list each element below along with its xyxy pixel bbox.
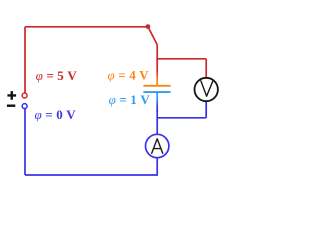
wire violet vertical to ammeter bbox=[156, 110, 158, 135]
ammeter A1 circle bbox=[146, 134, 169, 157]
battery - sign bbox=[7, 104, 15, 106]
svg-text:φ = 1 V: φ = 1 V bbox=[109, 92, 151, 107]
battery + sign bbox=[7, 91, 16, 100]
wire red top horizontal bbox=[25, 26, 148, 28]
capacitor C top plate bbox=[143, 85, 170, 87]
wire violet below ammeter bbox=[156, 158, 158, 175]
node battery - terminal open circle bbox=[22, 104, 27, 109]
wire red branch horizontal to voltmeter bbox=[157, 58, 206, 60]
switch blade diagonal bbox=[148, 27, 157, 45]
capacitor C bottom plate bbox=[143, 91, 170, 93]
wire red to orange gradient vertical to capacitor top plate bbox=[156, 59, 158, 86]
wire red left vertical from + terminal to top-left corner bbox=[24, 27, 26, 93]
wire red voltmeter top stub bbox=[205, 59, 207, 78]
wire azure to violet gradient below capacitor bbox=[156, 92, 158, 112]
node battery + terminal open circle bbox=[22, 93, 27, 98]
wire violet left vertical to - terminal bbox=[24, 109, 26, 175]
svg-text:φ = 5 V: φ = 5 V bbox=[36, 68, 78, 83]
wire violet bottom horizontal bbox=[25, 174, 158, 176]
ammeter letter A bbox=[152, 139, 163, 154]
wire violet junction horizontal to voltmeter branch bbox=[157, 117, 206, 119]
svg-text:φ = 0 V: φ = 0 V bbox=[35, 107, 77, 122]
wire blue voltmeter bottom stub bbox=[205, 102, 207, 118]
voltmeter letter V bbox=[201, 81, 213, 96]
svg-text:φ = 4 V: φ = 4 V bbox=[108, 67, 150, 82]
voltmeter V1 circle bbox=[195, 78, 218, 101]
node switch junction dot bbox=[146, 24, 151, 29]
wire red vertical above branch bbox=[156, 45, 158, 60]
